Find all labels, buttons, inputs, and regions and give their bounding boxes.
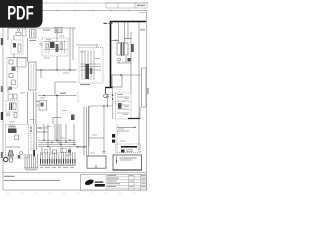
block NR101	[17, 58, 26, 67]
transistor Q101	[104, 94, 108, 98]
node	[56, 69, 57, 70]
node	[103, 105, 104, 106]
node	[116, 160, 117, 161]
switch block S101	[112, 75, 122, 87]
connector CN601 base	[40, 164, 76, 166]
label CN901	[140, 29, 145, 32]
transformer T301 dashed box	[6, 101, 18, 113]
wire	[118, 23, 120, 44]
capacitor C901	[121, 150, 125, 153]
diode D301	[14, 113, 17, 118]
header page number text	[137, 5, 145, 6]
node	[112, 98, 114, 100]
PC101 internal wires	[117, 97, 130, 113]
diode D201	[128, 58, 131, 62]
wire	[56, 96, 58, 141]
connector CN601 pins	[41, 152, 76, 165]
transformer T101 windings	[31, 64, 34, 89]
wire	[54, 82, 56, 96]
zone letter ticks left edge	[1, 38, 3, 158]
wire	[30, 124, 32, 150]
label IC101	[80, 84, 90, 85]
wire	[122, 74, 142, 76]
ground	[40, 43, 42, 45]
wire B+ bus	[37, 69, 77, 71]
node	[112, 94, 114, 96]
bottom strip divider	[3, 172, 147, 174]
label R212	[124, 105, 129, 108]
frame zone ticks top	[21, 10, 129, 12]
speaker SP601	[8, 151, 14, 157]
ground	[20, 152, 23, 155]
regulator IC301	[39, 101, 47, 111]
wire	[89, 105, 113, 107]
wire	[7, 28, 9, 40]
wire	[69, 147, 71, 155]
label T201	[114, 40, 119, 41]
wire	[89, 137, 105, 139]
node	[43, 131, 44, 132]
label IC601	[9, 126, 15, 127]
capacitor C312	[45, 150, 48, 154]
node	[43, 140, 44, 141]
wire	[37, 104, 40, 106]
capacitor C311	[61, 149, 67, 153]
label value	[29, 40, 36, 41]
title block cell text	[107, 175, 146, 187]
wire	[138, 11, 147, 13]
wire thick off line	[111, 22, 147, 88]
node	[77, 146, 78, 147]
IC101 body	[86, 64, 90, 79]
wire	[118, 61, 120, 63]
node	[60, 144, 61, 145]
fuse F101	[16, 29, 21, 36]
resistor R121	[90, 68, 93, 74]
node	[73, 144, 74, 145]
header cells top right	[106, 3, 147, 8]
label CN601 pins	[40, 166, 74, 169]
capacitor C210	[106, 95, 109, 97]
wire	[112, 87, 114, 119]
wire	[60, 124, 62, 147]
wire	[27, 38, 29, 62]
node	[47, 146, 48, 147]
resistor R301	[8, 94, 13, 99]
wire	[125, 56, 127, 63]
thermistor TH101 dashed column	[7, 58, 18, 89]
heater mark	[95, 165, 97, 168]
wire	[72, 28, 74, 60]
capacitor C601	[15, 135, 19, 140]
label inside box 2	[120, 159, 133, 162]
connector CN602 base	[24, 167, 39, 169]
bottom outer ticks	[8, 193, 134, 195]
photocoupler PC101 dashed box	[116, 93, 132, 119]
wire	[117, 130, 129, 132]
wire thick	[105, 87, 113, 89]
wire	[37, 101, 40, 103]
zone tick right edge	[147, 88, 148, 94]
label inside box	[120, 157, 137, 160]
capacitor C201	[131, 44, 134, 52]
transformer T301 winding	[13, 103, 16, 110]
wire	[37, 131, 49, 133]
wire	[7, 88, 9, 93]
node	[69, 140, 70, 141]
note line 2	[4, 180, 60, 181]
wire	[117, 126, 135, 128]
zone ruler top	[0, 2, 149, 4]
crystal box bottom edge	[113, 169, 142, 171]
node	[65, 142, 66, 143]
node	[56, 140, 57, 141]
wire	[27, 92, 29, 124]
wire	[8, 27, 76, 29]
wire	[77, 44, 98, 46]
IC301 marks	[41, 103, 44, 107]
resistor R101	[18, 44, 21, 52]
wire	[107, 96, 109, 106]
crystal X901 box	[113, 155, 142, 170]
wire thick feedback	[128, 118, 140, 120]
LED LED601	[4, 157, 8, 161]
transformer T201 secondary	[125, 43, 129, 55]
audio dashed box	[6, 125, 29, 159]
capacitor C310	[53, 150, 57, 154]
label PS2	[109, 23, 113, 24]
label PC101	[117, 93, 123, 96]
node	[69, 69, 70, 70]
wire	[103, 138, 105, 152]
wire	[69, 28, 71, 70]
wire	[96, 44, 98, 48]
capacitor C110	[9, 60, 13, 64]
svg-text:PDF: PDF	[7, 3, 34, 25]
wire	[111, 40, 117, 42]
logo wordmark	[95, 181, 104, 182]
node	[51, 142, 52, 143]
logo ellipse	[84, 178, 94, 186]
connector CN602 pins	[25, 154, 38, 168]
node	[40, 69, 41, 70]
pad GND2	[112, 140, 115, 143]
capacitor CX102	[13, 43, 16, 48]
wire	[127, 23, 129, 39]
node	[39, 127, 40, 128]
wire	[41, 147, 43, 155]
connector CN901	[142, 68, 147, 107]
pad GND1	[112, 134, 115, 138]
inductor L901 thick bar	[121, 146, 137, 148]
ground	[7, 113, 10, 116]
label OFF	[104, 23, 108, 24]
wire	[105, 88, 107, 94]
wire	[88, 106, 90, 147]
label R211	[124, 97, 129, 100]
transformer T101	[29, 62, 37, 90]
varistor VA101	[23, 29, 27, 36]
wire	[61, 147, 63, 153]
capacitor CX101 group	[11, 40, 23, 54]
PC101 body	[118, 103, 122, 109]
wire	[8, 57, 28, 59]
wire	[33, 124, 35, 150]
label FB101	[43, 30, 50, 31]
frame border	[3, 11, 147, 191]
wire	[53, 117, 61, 119]
diode D101	[46, 44, 49, 48]
wire	[77, 92, 79, 103]
resistor R110	[12, 67, 16, 72]
IC601 pins	[9, 125, 15, 134]
wire	[35, 92, 37, 124]
wire	[58, 124, 60, 144]
wire	[116, 124, 118, 158]
PDF badge	[0, 0, 43, 28]
diode D110	[9, 74, 13, 78]
crystal internals	[116, 157, 118, 165]
node junction	[120, 74, 122, 76]
diode D302	[71, 115, 75, 121]
resistor R111	[9, 87, 13, 91]
relay RY101	[55, 27, 62, 33]
node	[134, 127, 135, 128]
node	[43, 95, 44, 96]
capacitor C215	[103, 152, 106, 154]
wire	[43, 124, 45, 140]
wire bus3	[38, 143, 77, 145]
wire	[83, 107, 85, 156]
inductor L601 dark bar	[33, 150, 35, 157]
node	[56, 95, 58, 97]
wire	[103, 106, 105, 138]
capacitor C105	[56, 44, 59, 52]
wire	[36, 124, 38, 150]
wire	[77, 146, 87, 148]
node	[30, 127, 31, 128]
wire	[56, 124, 58, 142]
diode D310	[68, 150, 71, 153]
wire	[37, 127, 49, 129]
text speckles	[9, 36, 126, 156]
wire	[88, 106, 90, 156]
wire 5V bus	[38, 95, 77, 97]
bridge diode body	[50, 42, 55, 48]
label 5V	[60, 93, 66, 94]
wire	[117, 62, 131, 64]
wire bus2	[38, 141, 77, 143]
U101 pin wires	[81, 50, 102, 80]
wire	[56, 33, 58, 42]
IC601 body	[8, 129, 17, 134]
block heater box	[87, 156, 106, 168]
wire	[130, 32, 132, 93]
wire	[139, 107, 141, 119]
wire	[33, 92, 35, 124]
wire	[138, 22, 140, 152]
BD101 pin wires	[44, 41, 67, 54]
wire	[86, 107, 88, 156]
transformer T201 primary	[117, 43, 121, 55]
resistor R901	[127, 150, 132, 152]
relay contact marks	[56, 28, 58, 32]
wire	[124, 23, 126, 44]
node	[83, 146, 84, 147]
line filter FB101	[30, 30, 37, 39]
wire	[40, 70, 42, 78]
capacitor C111	[12, 80, 16, 85]
node	[107, 105, 108, 106]
wire	[52, 118, 54, 125]
resistor R105	[60, 43, 63, 49]
wire	[73, 124, 75, 144]
wire	[13, 54, 15, 58]
wire	[65, 124, 67, 142]
ground	[118, 58, 121, 61]
transformer T201 core	[122, 42, 124, 56]
title block outline	[81, 174, 147, 190]
bridge diode BD101 dashed box	[42, 38, 68, 56]
jack dashed box	[116, 144, 141, 153]
wire	[6, 146, 20, 148]
wire bus1	[38, 139, 77, 141]
wire	[54, 124, 56, 140]
wire bus4	[38, 146, 87, 148]
label D201	[125, 38, 131, 39]
resistor R302	[14, 94, 18, 99]
label CN602	[25, 168, 37, 171]
wire	[56, 56, 58, 70]
wire	[55, 81, 77, 83]
switch SW601	[18, 155, 21, 159]
note line 1	[4, 176, 15, 177]
connector CN601 pin pads	[40, 159, 76, 164]
transformer T301 core	[10, 103, 12, 111]
node	[30, 130, 31, 131]
wire	[49, 147, 51, 155]
label C213	[123, 113, 128, 116]
wire	[13, 35, 15, 40]
ruler ticks	[46, 2, 144, 3]
op-amp U101 dashed block	[79, 48, 103, 84]
resistor R601	[10, 157, 13, 162]
wire	[47, 124, 49, 147]
title block dividers	[106, 174, 147, 190]
